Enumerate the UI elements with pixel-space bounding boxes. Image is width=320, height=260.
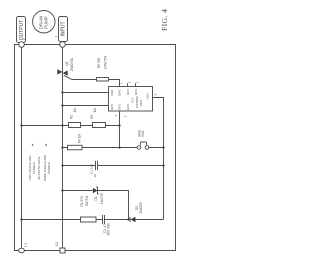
svg-text:2W 5%: 2W 5% (85, 196, 89, 206)
svg-text:FIG. 4: FIG. 4 (160, 9, 169, 31)
svg-text:PUMP: PUMP (44, 16, 49, 29)
svg-text:N.O.: N.O. (141, 130, 145, 137)
svg-text:3: 3 (136, 81, 140, 83)
svg-text:GP2: GP2 (126, 104, 130, 110)
svg-text:R2: R2 (70, 115, 74, 119)
svg-text:7: 7 (120, 82, 124, 84)
svg-text:R3: R3 (90, 115, 94, 119)
svg-text:4: 4 (114, 114, 118, 116)
svg-text:GP0: GP0 (110, 104, 114, 110)
svg-text:R1 270: R1 270 (80, 196, 84, 207)
svg-text:GP5: GP5 (118, 90, 122, 96)
svg-text:90-264 50 /60Hz: 90-264 50 /60Hz (37, 156, 41, 179)
svg-text:04/P: 04/P (139, 100, 143, 106)
svg-text:5: 5 (124, 115, 128, 117)
svg-text:GP3: GP3 (134, 89, 138, 95)
svg-text:2: 2 (128, 81, 132, 83)
svg-text:2N6073A: 2N6073A (70, 57, 74, 71)
svg-text:2: 2 (54, 35, 58, 37)
svg-text:D1: D1 (94, 196, 98, 200)
svg-text:R4 1M: R4 1M (78, 133, 82, 143)
svg-text:1N4003: 1N4003 (139, 202, 143, 213)
svg-text:Q1: Q1 (65, 61, 69, 65)
svg-text:IC1: IC1 (131, 98, 135, 103)
svg-text:10: 10 (93, 174, 97, 178)
svg-text:1M: 1M (73, 108, 77, 113)
svg-text:POWER: POWER (32, 161, 36, 173)
svg-text:8: 8 (154, 93, 158, 95)
svg-text:VSS: VSS (146, 93, 150, 99)
svg-text:GP4: GP4 (126, 89, 130, 95)
svg-text:POWER: POWER (47, 161, 51, 173)
svg-text:L1: L1 (24, 243, 28, 247)
svg-text:INPUT: INPUT (60, 22, 66, 37)
svg-text:1/4W 5%: 1/4W 5% (104, 56, 108, 69)
svg-text:C2 220: C2 220 (89, 164, 93, 174)
svg-text:VDD: VDD (110, 89, 114, 96)
svg-text:L2: L2 (55, 242, 59, 246)
svg-text:1N4735: 1N4735 (100, 193, 104, 204)
svg-text:GP1: GP1 (118, 104, 122, 110)
svg-text:400 VDC: 400 VDC (106, 222, 110, 236)
svg-text:OUTPUT: OUTPUT (19, 20, 25, 41)
svg-text:R5 330: R5 330 (97, 58, 101, 69)
svg-text:1M: 1M (93, 108, 97, 113)
